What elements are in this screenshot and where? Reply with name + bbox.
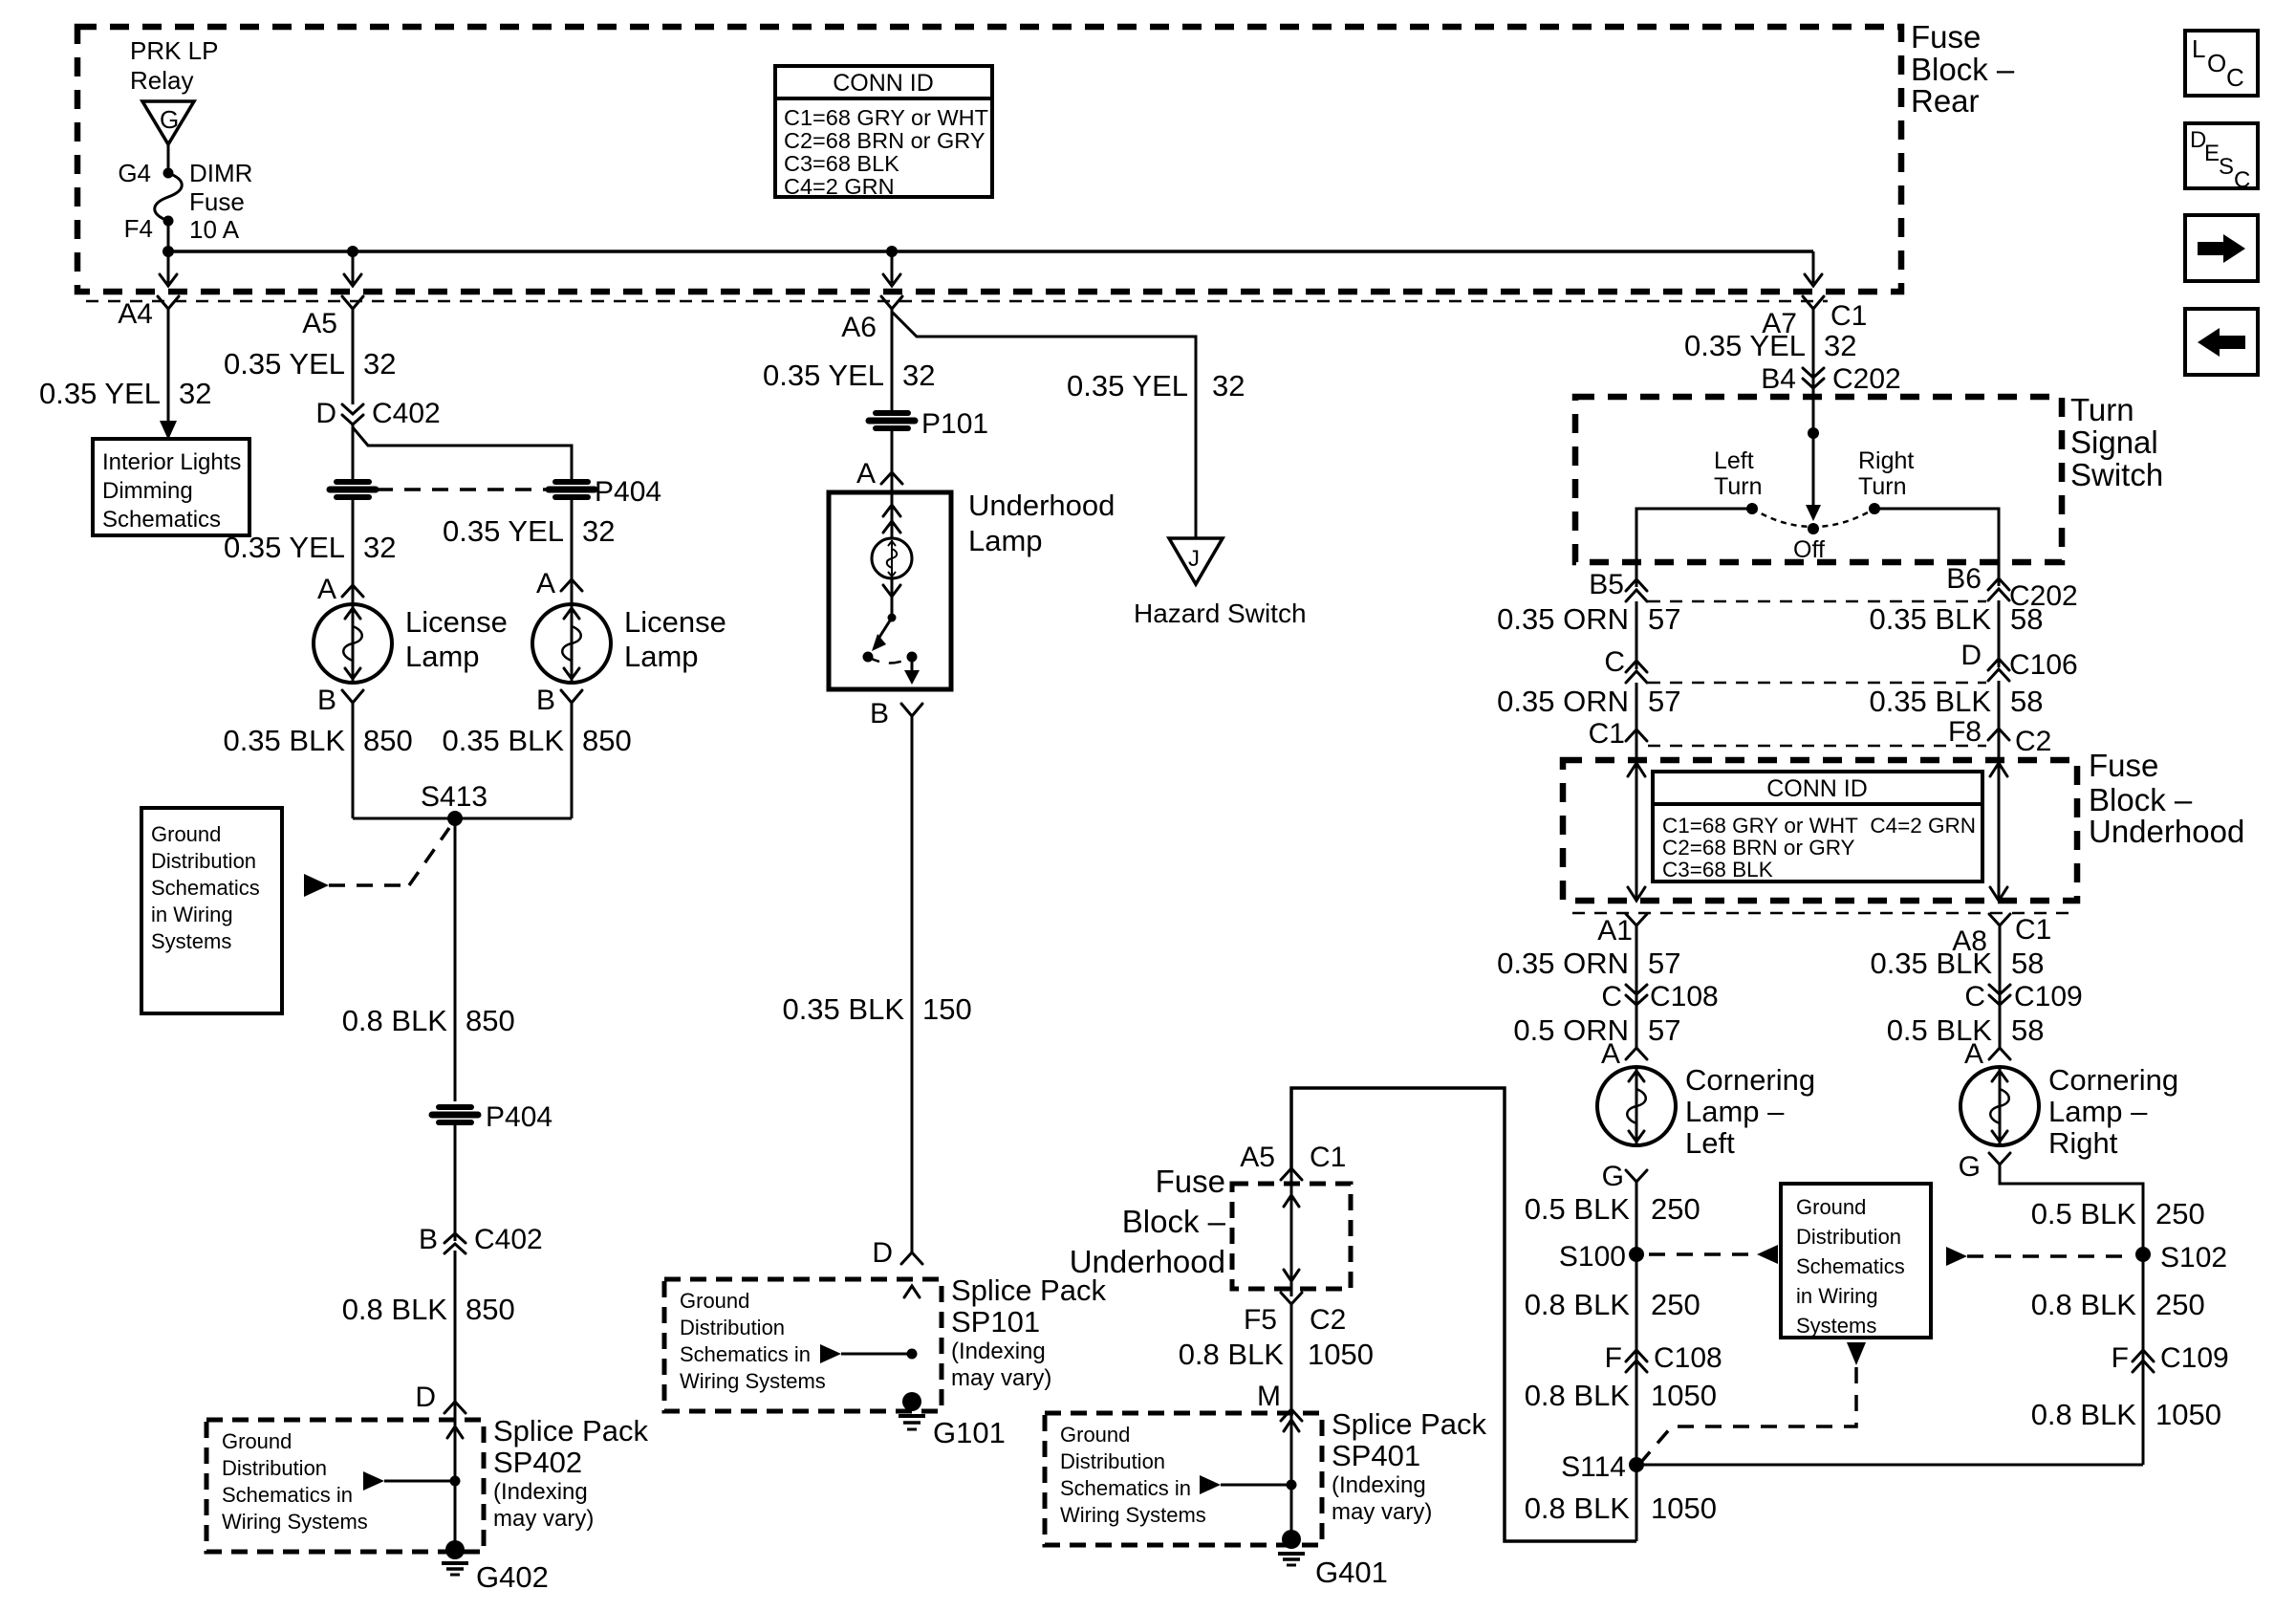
svg-text:CONN ID: CONN ID — [1766, 775, 1868, 802]
svg-text:G4: G4 — [118, 159, 151, 187]
svg-text:A6: A6 — [841, 312, 877, 343]
label 0.5 BLK 250 (left) — [1525, 1192, 1700, 1226]
svg-text:C1: C1 — [1830, 300, 1867, 332]
wire G right elbow — [2000, 1165, 2143, 1465]
svg-text:C202: C202 — [1832, 363, 1901, 395]
label 0.35 ORN 57 (A1) — [1497, 947, 1680, 980]
svg-text:Systems: Systems — [1796, 1314, 1876, 1338]
svg-text:Left: Left — [1714, 447, 1754, 474]
connector C C106 left — [1604, 646, 1647, 683]
wire C402 to SP402 — [454, 1251, 457, 1546]
label 0.5 BLK 250 (right) — [2031, 1197, 2205, 1230]
svg-text:may vary): may vary) — [1332, 1499, 1432, 1525]
svg-text:Cornering: Cornering — [1685, 1063, 1815, 1097]
svg-text:Relay: Relay — [130, 66, 193, 95]
arrow into SP402 wire — [447, 1426, 463, 1438]
svg-text:32: 32 — [902, 359, 935, 392]
fuse block underhood small label — [1070, 1164, 1226, 1279]
svg-text:10 A: 10 A — [189, 215, 240, 244]
svg-text:C: C — [1964, 981, 1985, 1012]
svg-text:Block –: Block – — [1911, 52, 2015, 87]
svg-text:F4: F4 — [124, 214, 153, 243]
svg-text:0.8 BLK: 0.8 BLK — [1525, 1379, 1631, 1412]
pin D SP101 — [872, 1237, 922, 1269]
wire branch to hazard switch — [892, 312, 1196, 538]
svg-text:C109: C109 — [2014, 981, 2083, 1012]
label 0.8 BLK 1050 (left) — [1525, 1379, 1717, 1412]
switch wiper arrow — [1806, 505, 1821, 521]
svg-text:B6: B6 — [1946, 563, 1982, 595]
svg-text:G402: G402 — [476, 1560, 549, 1594]
svg-text:E: E — [2204, 141, 2220, 166]
svg-text:A: A — [317, 574, 336, 605]
grommet P404 left — [330, 482, 376, 497]
connector B6 C202 — [1946, 563, 2077, 612]
svg-text:Systems: Systems — [151, 929, 231, 953]
label 0.5 BLK 58 — [1887, 1013, 2045, 1047]
connector D C402 — [315, 398, 440, 429]
svg-text:M: M — [1257, 1381, 1281, 1412]
splice pack SP101 label — [951, 1274, 1106, 1391]
svg-text:C2: C2 — [1310, 1304, 1346, 1336]
label 0.8 BLK 250 (left) — [1525, 1288, 1700, 1321]
svg-text:Ground: Ground — [680, 1289, 749, 1313]
pin B right lamp — [536, 685, 582, 716]
wire A4 down — [167, 309, 170, 423]
switch contact arc — [1752, 509, 1874, 527]
ground G101 — [899, 1392, 1006, 1449]
svg-text:O: O — [2207, 49, 2226, 77]
svg-text:Cornering: Cornering — [2048, 1063, 2178, 1097]
turn signal switch label — [2070, 392, 2163, 492]
splice pack SP101 dashed box — [664, 1279, 942, 1411]
cornering lamp left — [1597, 1063, 1815, 1160]
svg-text:P404: P404 — [595, 476, 661, 508]
svg-text:A: A — [1601, 1038, 1620, 1070]
svg-text:in Wiring: in Wiring — [151, 903, 233, 926]
svg-text:A: A — [1964, 1038, 1983, 1070]
wire grommet to C402 — [454, 1124, 457, 1241]
underhood lamp box — [829, 492, 951, 689]
svg-text:A5: A5 — [302, 308, 337, 339]
svg-text:0.35 YEL: 0.35 YEL — [443, 514, 564, 548]
node F4 — [124, 214, 174, 243]
svg-text:A5: A5 — [1240, 1142, 1275, 1173]
pin A left lamp — [317, 574, 363, 606]
label 0.8 BLK 1050 (right) — [2031, 1398, 2221, 1431]
LOC legend box — [2185, 31, 2258, 96]
svg-text:S102: S102 — [2160, 1242, 2227, 1274]
wire stub A6 exit — [883, 251, 900, 286]
underhood lamp switch — [863, 614, 921, 686]
svg-text:Wiring Systems: Wiring Systems — [222, 1510, 368, 1534]
svg-text:0.35 BLK: 0.35 BLK — [1869, 602, 1991, 636]
connector A8 C1 — [1952, 914, 2051, 957]
splice S413 — [353, 781, 572, 826]
label 0.35 YEL 32 (A7) — [1684, 329, 1856, 362]
svg-text:Schematics in: Schematics in — [1060, 1476, 1191, 1500]
svg-text:G401: G401 — [1315, 1556, 1388, 1589]
svg-text:1050: 1050 — [1651, 1491, 1717, 1525]
svg-text:B: B — [317, 685, 336, 716]
svg-text:F: F — [2112, 1342, 2129, 1374]
svg-text:C: C — [1601, 981, 1622, 1012]
svg-text:License: License — [405, 605, 508, 639]
svg-text:Signal: Signal — [2070, 425, 2158, 460]
connector chevron A6 — [881, 296, 902, 318]
wire into switch — [1812, 388, 1815, 505]
svg-text:Lamp –: Lamp – — [2048, 1095, 2148, 1128]
left turn contact — [1714, 447, 1762, 514]
svg-text:P101: P101 — [921, 408, 988, 440]
svg-text:57: 57 — [1648, 947, 1680, 980]
svg-text:1050: 1050 — [2155, 1398, 2221, 1431]
svg-text:C1: C1 — [2015, 914, 2051, 946]
svg-text:License: License — [624, 605, 726, 639]
svg-text:Schematics: Schematics — [102, 507, 221, 533]
svg-text:S413: S413 — [421, 781, 487, 813]
turn signal switch dashed box — [1575, 397, 2062, 562]
splice pack SP402 label — [493, 1414, 648, 1532]
wire A1 down — [1635, 925, 1638, 1048]
svg-text:58: 58 — [2010, 685, 2043, 718]
svg-text:32: 32 — [363, 347, 396, 381]
svg-text:C: C — [2234, 167, 2250, 193]
relay output triangle G — [142, 101, 194, 144]
label 0.8 BLK 1050 (SP401) — [1179, 1338, 1374, 1371]
svg-text:Schematics in: Schematics in — [222, 1483, 353, 1507]
C106 boundary dashed line — [1648, 682, 1986, 685]
svg-text:C2=68 BRN or GRY: C2=68 BRN or GRY — [784, 128, 986, 153]
svg-text:Distribution: Distribution — [1796, 1225, 1901, 1249]
svg-text:Lamp –: Lamp – — [1685, 1095, 1785, 1128]
junction dot A5 — [347, 246, 358, 257]
svg-text:C106: C106 — [2009, 649, 2078, 681]
wire P101 to lamp — [891, 431, 894, 492]
svg-text:Lamp: Lamp — [405, 640, 480, 673]
svg-text:A1: A1 — [1597, 915, 1633, 947]
loop wire from fuse block underhood to S114 — [1291, 1088, 1636, 1541]
underhood C1 boundary dashed line — [1572, 912, 2069, 915]
svg-text:57: 57 — [1648, 602, 1680, 636]
svg-text:0.8 BLK: 0.8 BLK — [2031, 1288, 2137, 1321]
svg-text:D: D — [415, 1382, 436, 1413]
wire through SP401 — [1290, 1409, 1293, 1537]
pin G cornering right — [1959, 1151, 2010, 1183]
svg-text:G101: G101 — [933, 1416, 1006, 1449]
svg-text:C: C — [2226, 63, 2244, 92]
connector A1 — [1597, 914, 1647, 947]
svg-text:Fuse: Fuse — [2089, 748, 2158, 783]
svg-text:0.8 BLK: 0.8 BLK — [1525, 1288, 1631, 1321]
svg-text:58: 58 — [2010, 602, 2043, 636]
svg-text:may vary): may vary) — [493, 1506, 594, 1532]
label 0.35 BLK 58 (A8) — [1870, 947, 2044, 980]
right turn contact — [1858, 447, 1914, 514]
wire A8 down — [1999, 925, 2002, 1048]
connector B C402 — [419, 1224, 543, 1255]
license lamp right — [532, 604, 726, 683]
label 0.35 YEL 32 (A6) — [763, 359, 935, 392]
svg-text:Splice Pack: Splice Pack — [493, 1414, 648, 1448]
connector F C108 — [1605, 1342, 1722, 1374]
svg-text:0.35 BLK: 0.35 BLK — [442, 724, 564, 757]
svg-text:Block –: Block – — [2089, 782, 2193, 817]
svg-text:32: 32 — [1212, 369, 1245, 403]
label 0.35 YEL 32 (left lamp) — [224, 531, 396, 564]
svg-text:250: 250 — [2155, 1288, 2205, 1321]
svg-text:C402: C402 — [474, 1224, 543, 1255]
wire underhood lamp to SP101 — [911, 716, 914, 1254]
svg-text:F8: F8 — [1948, 716, 1982, 748]
node G4 — [118, 159, 173, 187]
svg-text:Wiring Systems: Wiring Systems — [1060, 1503, 1206, 1527]
svg-text:0.5 BLK: 0.5 BLK — [1525, 1192, 1631, 1226]
svg-text:0.35 BLK: 0.35 BLK — [1869, 685, 1991, 718]
svg-text:0.35 ORN: 0.35 ORN — [1497, 685, 1629, 718]
wire B6 to D — [1998, 600, 2001, 667]
svg-text:G: G — [1602, 1161, 1624, 1192]
relay PRK LP label — [130, 36, 219, 95]
svg-text:SP401: SP401 — [1332, 1439, 1420, 1472]
pin G cornering left — [1602, 1161, 1647, 1192]
svg-text:(Indexing: (Indexing — [951, 1339, 1046, 1364]
svg-text:B5: B5 — [1589, 569, 1624, 600]
ground distribution note text (SP101) — [680, 1289, 826, 1393]
wire stub A7 exit — [1805, 251, 1822, 286]
svg-text:0.35 YEL: 0.35 YEL — [224, 347, 345, 381]
junction dot A6 — [886, 246, 898, 257]
label 0.35 YEL 32 (hazard) — [1067, 369, 1245, 403]
svg-text:Switch: Switch — [2070, 457, 2163, 492]
wire branch to right license lamp — [353, 427, 572, 479]
label 0.35 BLK 150 — [782, 992, 971, 1026]
wire C to C1 — [1635, 683, 1638, 755]
dashed reference arrow to S413 — [304, 828, 449, 897]
svg-text:Fuse: Fuse — [189, 187, 245, 216]
svg-text:B4: B4 — [1761, 363, 1796, 395]
svg-text:Lamp: Lamp — [968, 524, 1043, 557]
left wire through fuse block underhood — [1628, 755, 1645, 901]
label 0.35 BLK 58 (D) — [1869, 685, 2043, 718]
C2 boundary dashed line — [1648, 745, 1986, 748]
wire A6 down — [891, 309, 894, 410]
svg-text:A: A — [856, 458, 876, 490]
svg-text:0.35 YEL: 0.35 YEL — [224, 531, 345, 564]
pin A7 C1 — [1762, 296, 1867, 339]
svg-text:0.35 ORN: 0.35 ORN — [1497, 947, 1629, 980]
svg-text:250: 250 — [1651, 1288, 1700, 1321]
right wire through fuse block underhood — [1990, 755, 2007, 901]
pin A cornering right — [1964, 1038, 2010, 1070]
svg-text:Ground: Ground — [222, 1429, 292, 1453]
svg-text:Schematics: Schematics — [1796, 1254, 1905, 1278]
svg-text:L: L — [2192, 34, 2205, 63]
ground distribution note text (SP402) — [222, 1429, 368, 1534]
svg-text:Fuse: Fuse — [1911, 19, 1981, 54]
svg-text:Right: Right — [1858, 447, 1914, 474]
arrow into SP101 wire — [904, 1286, 920, 1297]
svg-text:C402: C402 — [372, 398, 441, 429]
svg-text:0.35 BLK: 0.35 BLK — [782, 992, 904, 1026]
svg-text:0.8 BLK: 0.8 BLK — [2031, 1398, 2137, 1431]
svg-text:G: G — [1959, 1151, 1981, 1183]
SP402 branch junction — [363, 1471, 461, 1491]
svg-text:C3=68 BLK: C3=68 BLK — [1662, 858, 1773, 882]
hazard switch triangle J — [1169, 538, 1223, 584]
svg-text:Underhood: Underhood — [1070, 1244, 1225, 1279]
svg-text:Distribution: Distribution — [1060, 1449, 1165, 1473]
svg-text:Schematics: Schematics — [151, 876, 260, 900]
splice S114 — [1561, 1451, 2143, 1483]
svg-text:Underhood: Underhood — [968, 489, 1115, 522]
svg-text:J: J — [1188, 546, 1200, 572]
svg-text:0.35 ORN: 0.35 ORN — [1497, 602, 1629, 636]
svg-text:PRK LP: PRK LP — [130, 36, 219, 65]
pin B underhood lamp — [870, 698, 922, 729]
svg-text:0.35 BLK: 0.35 BLK — [1870, 947, 1992, 980]
svg-text:Off: Off — [1793, 536, 1825, 563]
pin D SP402 — [415, 1382, 466, 1413]
connector D C106 — [1960, 640, 2077, 681]
label 0.35 ORN 57 (B5) — [1497, 602, 1680, 636]
svg-text:Underhood: Underhood — [2089, 814, 2244, 849]
fuse block underhood label — [2089, 748, 2244, 849]
connector C1 fuse block — [1589, 718, 1647, 750]
wire B5 to C — [1635, 601, 1638, 669]
SP101 branch junction — [820, 1344, 918, 1363]
svg-text:32: 32 — [582, 514, 615, 548]
wire to left license lamp — [352, 500, 355, 585]
svg-text:Schematics in: Schematics in — [680, 1342, 811, 1366]
CONN ID table top — [775, 66, 992, 199]
svg-text:Hazard Switch: Hazard Switch — [1134, 599, 1307, 628]
svg-text:150: 150 — [922, 992, 972, 1026]
svg-text:C: C — [1604, 646, 1625, 678]
wire F4 to bus — [167, 221, 170, 251]
connector C1 boundary dashed line — [86, 300, 1828, 303]
C202 boundary dashed line — [1648, 600, 1986, 603]
svg-text:57: 57 — [1648, 685, 1680, 718]
svg-text:DIMR: DIMR — [189, 159, 252, 187]
svg-text:Dimming: Dimming — [102, 478, 193, 504]
svg-text:Fuse: Fuse — [1156, 1164, 1225, 1199]
switch off contact — [1808, 523, 1819, 534]
svg-text:Rear: Rear — [1911, 83, 1980, 119]
svg-text:Left: Left — [1685, 1126, 1735, 1160]
junction dot A4 — [162, 246, 174, 257]
license lamp left — [314, 604, 508, 683]
connector C C109 — [1964, 981, 2082, 1012]
arrow into SP401 wire — [1284, 1420, 1299, 1431]
svg-text:C109: C109 — [2160, 1342, 2229, 1374]
connector F8 C2 — [1948, 716, 2051, 757]
svg-text:C2: C2 — [2015, 726, 2051, 757]
pin M SP401 — [1257, 1381, 1302, 1421]
wire D to F8 — [1998, 681, 2001, 755]
svg-text:250: 250 — [1651, 1192, 1700, 1226]
svg-text:0.8 BLK: 0.8 BLK — [342, 1004, 448, 1037]
CONN ID table underhood — [1653, 772, 1982, 882]
wire right turn to B6 — [1874, 509, 1999, 586]
wire below C402 left — [352, 425, 355, 479]
svg-text:0.8 BLK: 0.8 BLK — [1179, 1338, 1285, 1371]
DESC legend box — [2185, 123, 2258, 193]
switch feed junction — [1808, 427, 1819, 439]
svg-text:Ground: Ground — [1796, 1195, 1866, 1219]
svg-text:B: B — [419, 1224, 438, 1255]
splice S100 — [1559, 1241, 1644, 1273]
svg-text:Interior Lights: Interior Lights — [102, 449, 241, 475]
svg-text:32: 32 — [1824, 329, 1856, 362]
svg-text:0.5 BLK: 0.5 BLK — [2031, 1197, 2137, 1230]
wire A5 down — [352, 309, 355, 404]
left arrow legend box — [2185, 309, 2258, 375]
dashed reference arrow left of ground box — [1649, 1245, 1778, 1264]
ground distribution note text (SP401) — [1060, 1423, 1206, 1527]
svg-text:57: 57 — [1648, 1013, 1680, 1047]
svg-text:850: 850 — [582, 724, 632, 757]
svg-text:Turn: Turn — [2070, 392, 2134, 427]
svg-text:(Indexing: (Indexing — [493, 1479, 588, 1505]
cornering lamp right — [1960, 1063, 2178, 1160]
pin A5 C1 small fuse block — [1240, 1142, 1346, 1180]
svg-text:S114: S114 — [1561, 1451, 1626, 1483]
bus wire inside fuse block — [168, 250, 1813, 253]
wire left turn to B5 — [1636, 509, 1752, 587]
wire G left down through S100 — [1635, 1182, 1638, 1541]
wire stub A4 exit — [160, 251, 177, 286]
svg-text:A4: A4 — [118, 298, 153, 330]
svg-text:C108: C108 — [1654, 1342, 1722, 1374]
svg-text:Distribution: Distribution — [680, 1316, 785, 1339]
splice S102 — [2135, 1242, 2227, 1274]
svg-text:250: 250 — [2155, 1197, 2205, 1230]
pin A underhood lamp — [856, 458, 902, 490]
svg-text:P404: P404 — [486, 1101, 552, 1133]
svg-text:32: 32 — [363, 531, 396, 564]
svg-text:850: 850 — [466, 1293, 515, 1326]
svg-text:58: 58 — [2011, 1013, 2044, 1047]
connector C C108 — [1601, 981, 1718, 1012]
svg-text:SP402: SP402 — [493, 1446, 582, 1479]
svg-text:Ground: Ground — [151, 822, 221, 846]
svg-text:D: D — [315, 398, 336, 429]
label 0.8 BLK 1050 (below S114) — [1525, 1491, 1717, 1525]
svg-text:may vary): may vary) — [951, 1365, 1051, 1391]
wire left lamp to S413 — [352, 703, 355, 818]
connector chevron A4 — [158, 296, 179, 318]
svg-text:850: 850 — [466, 1004, 515, 1037]
svg-text:A: A — [536, 568, 555, 599]
fuse block underhood small dashed box — [1232, 1184, 1351, 1289]
svg-text:C1: C1 — [1589, 718, 1625, 750]
svg-text:C3=68 BLK: C3=68 BLK — [784, 151, 899, 176]
SP401 branch junction — [1200, 1475, 1297, 1494]
svg-text:Turn: Turn — [1858, 473, 1906, 500]
svg-text:B: B — [870, 698, 889, 729]
dashed reference arrow right of ground box — [1946, 1247, 2130, 1266]
dashed reference arrow below ground box to S114 — [1642, 1342, 1866, 1461]
svg-text:850: 850 — [363, 724, 413, 757]
svg-text:in Wiring: in Wiring — [1796, 1284, 1878, 1308]
svg-text:Block –: Block – — [1122, 1204, 1226, 1239]
underhood lamp label — [968, 489, 1115, 557]
svg-text:0.35 YEL: 0.35 YEL — [1684, 329, 1806, 362]
svg-text:C1=68 GRY or WHT: C1=68 GRY or WHT — [784, 105, 988, 130]
underhood lamp internals — [872, 492, 912, 615]
connector B5 — [1589, 569, 1647, 601]
